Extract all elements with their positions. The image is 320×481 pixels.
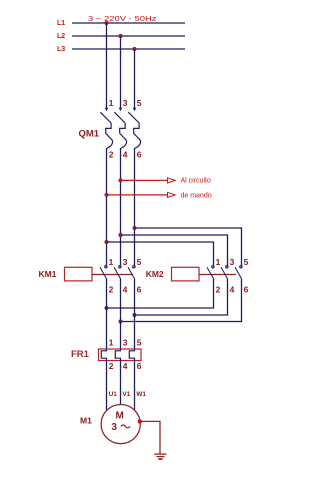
svg-text:Al circuito: Al circuito — [181, 177, 211, 184]
wire FR1 out U1 to motor — [106, 361, 108, 411]
wire KM2 out 2 to phase 1 — [107, 279, 214, 308]
junction motor ground tap — [138, 419, 142, 423]
svg-text:1: 1 — [109, 257, 114, 267]
wire KM1 out phase 2 to FR1 — [120, 279, 122, 349]
wire FR1 out W1 to motor — [134, 361, 136, 411]
wire phase L3 — [72, 48, 185, 50]
svg-text:6: 6 — [137, 361, 142, 371]
svg-text:KM1: KM1 — [39, 269, 57, 279]
junction KM2 out6 phase2 — [118, 319, 122, 323]
contactor KM2 pole 3 — [235, 266, 242, 279]
breaker QM1 pole 1 — [100, 108, 112, 148]
wire QM1 out phase 3 to KM1 — [134, 148, 136, 265]
wire QM1 out phase 2 to KM1 — [120, 148, 122, 265]
svg-text:1: 1 — [216, 257, 221, 267]
svg-text:U1: U1 — [109, 391, 118, 398]
junction KM2 feed phase 2 — [118, 233, 122, 237]
svg-text:5: 5 — [137, 257, 142, 267]
junction L1 tap — [104, 21, 108, 25]
contactor KM2 link — [199, 274, 236, 276]
wire KM2 out 6 to phase 2 — [121, 279, 242, 322]
breaker QM1 pole 3 — [128, 108, 140, 148]
svg-text:3: 3 — [111, 422, 117, 433]
motor tilde — [121, 425, 130, 428]
wire KM1 out phase 3 to FR1 — [134, 279, 136, 349]
wire L3 drop to QM1 — [134, 49, 136, 111]
svg-text:2: 2 — [109, 361, 114, 371]
svg-text:1: 1 — [109, 98, 114, 108]
contactor KM1 pole 2 — [114, 266, 121, 279]
svg-text:2: 2 — [216, 285, 221, 295]
relay FR1 box — [99, 349, 142, 361]
svg-text:4: 4 — [123, 361, 128, 371]
wire L1 drop to QM1 — [106, 23, 108, 111]
svg-text:V1: V1 — [122, 391, 130, 398]
arrowhead control 2 — [168, 192, 176, 197]
svg-text:3 ~ 220V - 50Hz: 3 ~ 220V - 50Hz — [88, 14, 157, 23]
junction L2 tap — [118, 34, 122, 38]
junction control tap phase 1 — [105, 193, 109, 197]
wire KM1 out phase 1 to FR1 — [106, 279, 108, 349]
svg-text:4: 4 — [230, 285, 235, 295]
wire L2 drop to QM1 — [120, 36, 122, 111]
wire phase L1 — [72, 22, 185, 24]
svg-text:6: 6 — [244, 285, 249, 295]
svg-text:W1: W1 — [136, 391, 146, 398]
svg-text:QM1: QM1 — [79, 129, 100, 140]
wire QM1 out phase 1 to KM1 — [106, 148, 108, 265]
svg-text:6: 6 — [137, 285, 142, 295]
junction KM2 feed phase 3 — [132, 226, 136, 230]
contactor KM1 link — [92, 274, 133, 276]
wire control arrow 2 — [107, 194, 168, 196]
relay FR1 heater 2 — [115, 349, 120, 361]
svg-text:M1: M1 — [80, 416, 92, 426]
svg-text:L2: L2 — [57, 33, 65, 40]
svg-text:5: 5 — [137, 337, 142, 347]
svg-text:2: 2 — [109, 150, 114, 160]
contactor KM2 coil — [172, 267, 200, 281]
breaker QM1 pole 2 — [114, 108, 126, 148]
svg-text:4: 4 — [123, 285, 128, 295]
svg-text:L1: L1 — [57, 20, 65, 27]
svg-text:M: M — [116, 411, 124, 422]
junction KM2 out2 phase1 — [104, 306, 108, 310]
svg-text:3: 3 — [123, 337, 128, 347]
arrowhead control 1 — [168, 178, 176, 183]
wire phase L2 — [72, 35, 185, 37]
wire control arrow 1 — [121, 179, 168, 181]
wire motor to ground — [140, 421, 160, 453]
contactor KM2 pole 1 — [207, 266, 214, 279]
svg-text:KM2: KM2 — [146, 269, 164, 279]
wire KM2 feed middle bracket from phase 2 — [121, 235, 228, 265]
wire KM2 feed bottom bracket from phase 1 — [107, 242, 214, 265]
svg-text:1: 1 — [109, 337, 114, 347]
svg-text:3: 3 — [230, 257, 235, 267]
svg-text:de mando: de mando — [181, 193, 212, 200]
junction L3 tap — [132, 47, 136, 51]
contactor KM1 pole 1 — [100, 266, 107, 279]
relay FR1 heater 3 — [129, 349, 134, 361]
svg-text:2: 2 — [109, 285, 114, 295]
svg-text:5: 5 — [244, 257, 249, 267]
junction KM2 out4 phase3 — [132, 313, 136, 317]
ground symbol — [154, 454, 166, 459]
svg-text:L3: L3 — [57, 46, 65, 53]
svg-text:3: 3 — [123, 257, 128, 267]
contactor KM1 pole 3 — [128, 266, 135, 279]
contactor KM2 pole 2 — [221, 266, 228, 279]
contactor KM1 coil — [65, 267, 93, 281]
wire KM2 feed top bracket from phase 3 — [135, 228, 242, 265]
svg-text:6: 6 — [137, 150, 142, 160]
svg-text:4: 4 — [123, 150, 128, 160]
junction control tap phase 2 — [119, 178, 123, 182]
svg-text:5: 5 — [137, 98, 142, 108]
svg-text:3: 3 — [123, 98, 128, 108]
svg-text:FR1: FR1 — [71, 349, 90, 360]
wire KM2 out 4 to phase 3 — [135, 279, 228, 315]
relay FR1 heater 1 — [101, 349, 106, 361]
wire FR1 out V1 to motor — [120, 361, 122, 405]
motor M1 circle — [101, 405, 140, 444]
junction KM2 feed phase 1 — [104, 240, 108, 244]
